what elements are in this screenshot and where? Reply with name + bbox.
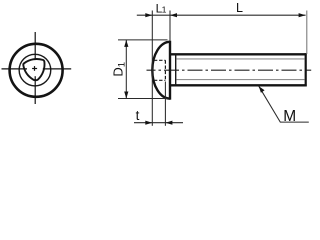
svg-text:t: t [136,108,140,123]
svg-text:1: 1 [162,5,167,15]
svg-text:L: L [236,1,243,15]
svg-text:M: M [283,108,296,125]
